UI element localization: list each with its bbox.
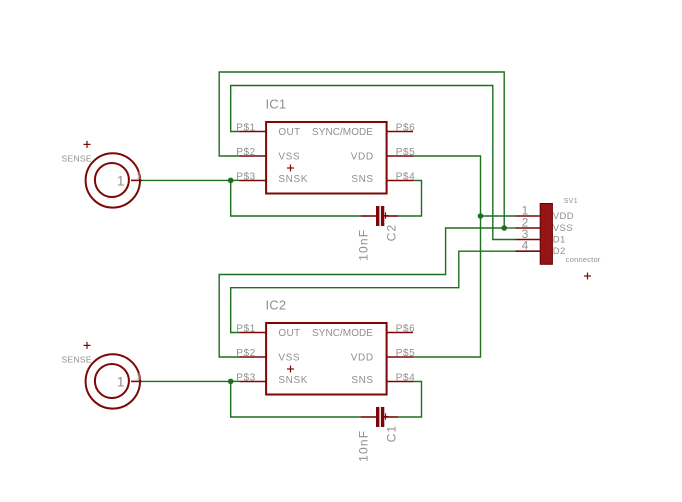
svg-text:P$5: P$5 xyxy=(396,348,416,359)
svg-text:VDD: VDD xyxy=(351,353,374,364)
svg-text:SENSE: SENSE xyxy=(62,355,92,365)
svg-text:IC1: IC1 xyxy=(266,96,287,111)
svg-text:P$3: P$3 xyxy=(236,373,256,384)
svg-text:VDD: VDD xyxy=(553,211,574,222)
svg-text:VDD: VDD xyxy=(351,152,374,163)
svg-text:P$2: P$2 xyxy=(236,348,256,359)
svg-text:SNSK: SNSK xyxy=(278,375,308,386)
svg-text:connector: connector xyxy=(566,255,601,264)
svg-text:1: 1 xyxy=(137,371,142,381)
svg-text:P$4: P$4 xyxy=(396,373,416,384)
svg-text:P$1: P$1 xyxy=(236,324,256,335)
svg-text:D2: D2 xyxy=(553,246,566,257)
svg-text:SENSE: SENSE xyxy=(62,154,92,164)
svg-text:VSS: VSS xyxy=(278,353,300,364)
svg-text:1: 1 xyxy=(117,173,125,189)
svg-text:1: 1 xyxy=(117,374,125,390)
svg-text:VSS: VSS xyxy=(278,152,300,163)
svg-text:P$3: P$3 xyxy=(236,172,256,183)
svg-text:OUT: OUT xyxy=(278,328,300,339)
svg-text:D1: D1 xyxy=(553,235,566,246)
svg-text:SYNC/MODE: SYNC/MODE xyxy=(312,127,373,138)
svg-text:VSS: VSS xyxy=(553,223,573,234)
svg-text:SNS: SNS xyxy=(351,174,373,185)
svg-text:4: 4 xyxy=(522,239,529,253)
svg-text:1: 1 xyxy=(137,170,142,180)
svg-text:SV1: SV1 xyxy=(564,198,578,205)
svg-text:C2: C2 xyxy=(384,224,398,242)
svg-text:P$5: P$5 xyxy=(396,147,416,158)
svg-text:P$2: P$2 xyxy=(236,147,256,158)
svg-text:OUT: OUT xyxy=(278,127,300,138)
svg-text:SYNC/MODE: SYNC/MODE xyxy=(312,328,373,339)
svg-text:SNSK: SNSK xyxy=(278,174,308,185)
svg-text:P$4: P$4 xyxy=(396,172,416,183)
svg-text:SNS: SNS xyxy=(351,375,373,386)
svg-text:10nF: 10nF xyxy=(356,430,370,462)
svg-text:P$1: P$1 xyxy=(236,123,256,134)
svg-text:10nF: 10nF xyxy=(356,229,370,261)
svg-text:P$6: P$6 xyxy=(396,324,416,335)
svg-text:IC2: IC2 xyxy=(266,297,287,312)
svg-text:C1: C1 xyxy=(384,425,398,443)
svg-text:P$6: P$6 xyxy=(396,123,416,134)
